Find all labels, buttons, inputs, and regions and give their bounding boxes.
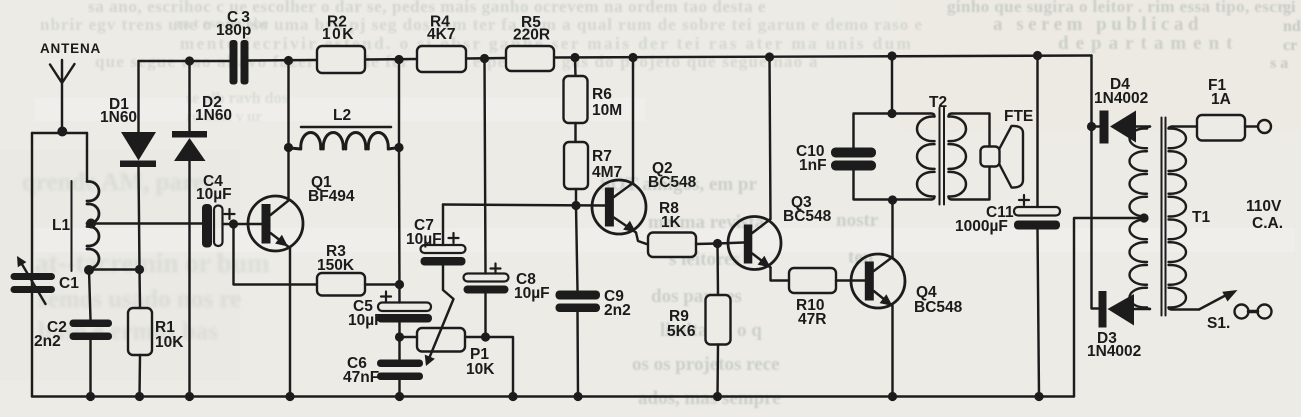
transistor Q3 BC548 (728, 194, 832, 281)
node P1/ground junction (508, 392, 517, 401)
node C6/ground junction (395, 392, 404, 401)
node T2 primary bottom / Q4 collector junction (888, 195, 897, 204)
svg-text:220R: 220R (513, 27, 550, 44)
svg-text:s a: s a (1270, 55, 1288, 72)
wire top rail down to L2 left / Q1 collector (287, 61, 289, 200)
svg-text:L1: L1 (52, 217, 70, 234)
svg-text:2n2: 2n2 (34, 333, 61, 350)
node C4/Q1-base/R3 junction (229, 219, 238, 228)
node C9/ground junction (573, 392, 582, 401)
svg-text:10K: 10K (466, 361, 495, 378)
node D4 junction (1087, 122, 1096, 131)
wire C8 to P1 right node (484, 294, 486, 338)
resistor R3 150K (317, 243, 400, 296)
transformer T2 secondary winding (949, 114, 966, 200)
transformer T1 primary winding (1130, 127, 1211, 310)
resistor R1 10K (128, 270, 184, 397)
node L1 bottom junction (84, 265, 94, 275)
svg-text:R7: R7 (592, 148, 612, 165)
wire right column (top rail corner down to D3) (1092, 56, 1099, 309)
svg-text:sa ano, escrihoc c ue escolher: sa ano, escrihoc c ue escolher o dar se,… (88, 0, 766, 16)
wire tank box top edge (32, 132, 87, 134)
wire T2 secondary loop to speaker (952, 114, 990, 200)
svg-text:4M7: 4M7 (592, 164, 622, 181)
node top-rail/C11 junction (1033, 51, 1042, 60)
wire Q4 emitter to ground rail (891, 306, 893, 397)
node C5/C6/P1 junction (395, 332, 404, 341)
svg-text:10µF: 10µF (196, 186, 232, 203)
svg-text:qrende AM, parec: qrende AM, parec (22, 169, 215, 196)
fuse F1 1A (1197, 77, 1258, 141)
resistor R5 220R (506, 14, 554, 71)
svg-text:gi: gi (1283, 0, 1296, 16)
node R1/ground junction (135, 392, 144, 401)
node L1 tap junction (86, 219, 96, 229)
svg-text:180p: 180p (216, 22, 251, 39)
wire T1 secondary bottom to switch (1172, 308, 1199, 310)
svg-text:110V: 110V (1246, 198, 1282, 215)
resistor R8 1K (648, 200, 744, 257)
capacitor C11 1000uF (electrolytic) (955, 56, 1060, 397)
node R8/R9/Q3-base junction (713, 239, 722, 248)
wire L1 bottom down to C2 (89, 270, 91, 320)
svg-text:nbrir egv trens une o enviso u: nbrir egv trens une o enviso uma brd pj … (40, 15, 923, 34)
node top-rail/L2-left junction (284, 56, 293, 65)
node D2/ground junction (185, 392, 194, 401)
node R3/C5 junction (395, 280, 404, 289)
node R9/ground junction (713, 392, 722, 401)
svg-text:BF494: BF494 (308, 188, 355, 205)
node top-rail/L2-right/R4 junction (394, 55, 403, 64)
svg-text:nd: nd (1283, 18, 1301, 35)
potentiometer P1 10K (400, 266, 496, 379)
svg-text:47nF: 47nF (343, 369, 379, 386)
wire L1 tap to C4 (91, 222, 202, 224)
node C2/ground junction (86, 392, 95, 401)
svg-text:10M: 10M (592, 102, 622, 119)
svg-text:10µF: 10µF (514, 285, 550, 302)
wire L1 bottom to D1/R1 column (89, 268, 140, 270)
wire rail down to T2 primary top (891, 56, 893, 114)
resistor R6 10M (564, 58, 623, 143)
wire C6 to ground rail (398, 380, 400, 397)
svg-text:R6: R6 (592, 86, 612, 103)
capacitor C1 (variable) (11, 256, 80, 304)
wire Q1 emitter to ground rail (289, 248, 291, 397)
svg-text:1N4002: 1N4002 (1087, 343, 1141, 360)
node D1/L1/R1 junction (135, 265, 144, 274)
svg-text:ados, mas sempre: ados, mas sempre (638, 388, 781, 409)
node T1 center tap junction (1139, 213, 1148, 222)
svg-text:1nF: 1nF (799, 157, 827, 174)
inductor L2 with core bar (290, 107, 399, 149)
wire ground rail (bottom) (32, 395, 1074, 397)
svg-text:47R: 47R (798, 311, 826, 328)
transformer T2 core (940, 108, 945, 205)
resistor R9 5K6 (667, 244, 731, 397)
wire Q2 collector column (632, 58, 634, 184)
svg-text:1N60: 1N60 (100, 109, 137, 126)
svg-text:BC548: BC548 (783, 208, 832, 225)
svg-text:C1: C1 (59, 275, 79, 292)
node top-rail/Q2-collector junction (628, 53, 637, 62)
svg-text:1A: 1A (1211, 91, 1231, 108)
capacitor C6 47nF (343, 355, 423, 386)
wire C2 to ground rail (89, 340, 91, 397)
capacitor C7 10uF (electrolytic) (406, 205, 466, 266)
svg-text:10K: 10K (322, 26, 355, 43)
antenna ANTENA (40, 41, 101, 137)
diode D1 1N60 (100, 61, 156, 270)
node Q1-emitter/ground junction (285, 392, 294, 401)
node top-rail/T2 junction (887, 51, 896, 60)
wire T1 secondary top to fuse (1172, 125, 1197, 127)
node C8/P1-right junction (481, 332, 490, 341)
node Q4-emitter/ground junction (888, 392, 897, 401)
svg-text:T1: T1 (1192, 209, 1210, 226)
capacitor C5 10uF (electrolytic) (348, 292, 432, 330)
transformer T1 core (1162, 118, 1166, 316)
wire Q3 collector column (770, 57, 771, 219)
wire C5 to C6 (398, 323, 400, 360)
svg-text:10µF: 10µF (406, 231, 442, 248)
svg-text:os os projetos rece: os os projetos rece (632, 354, 780, 375)
node R5/R6 top-rail junction (570, 53, 579, 62)
wire P1 right node to ground rail (465, 337, 513, 397)
wire left branch (through C1) down to ground rail (31, 133, 33, 397)
diode D2 1N60 (172, 61, 232, 397)
wire Q2 base line (from C7 corner to Q2) (443, 205, 605, 206)
diode D3 1N4002 (1087, 291, 1150, 360)
transformer T1 secondary winding (1169, 127, 1187, 310)
resistor R10 47R (789, 268, 865, 328)
svg-text:FTE: FTE (1004, 108, 1033, 125)
capacitor C2 2n2 (34, 319, 112, 350)
svg-text:departament: departament (1058, 33, 1239, 54)
node L2 right junction (394, 143, 403, 152)
speaker FTE (981, 108, 1034, 188)
svg-text:C.A.: C.A. (1252, 215, 1283, 232)
node L2 left junction (284, 143, 293, 152)
wire L2 right column (rail to R3/C5) (398, 60, 401, 303)
svg-text:a serem publicad: a serem publicad (993, 14, 1203, 35)
capacitor C4 10uF (electrolytic) (196, 173, 262, 248)
svg-text:10µF: 10µF (348, 312, 384, 329)
wire Q1 base bias down and right to R3 (234, 224, 318, 285)
resistor R7 4M7 (564, 142, 622, 206)
svg-text:150K: 150K (317, 257, 355, 274)
node top-rail/Q3-collector junction (765, 52, 774, 61)
wire Q4 collector up to T2 primary bottom (891, 200, 893, 257)
svg-text:10K: 10K (155, 334, 184, 351)
wire C8 column (rail down to C8) (485, 59, 486, 274)
node C11/ground junction (1034, 392, 1043, 401)
svg-text:5K6: 5K6 (667, 323, 696, 340)
svg-text:L2: L2 (333, 107, 351, 124)
svg-text:BC548: BC548 (648, 174, 697, 191)
svg-text:S1.: S1. (1207, 315, 1230, 332)
wire T1 tap to right end of ground rail (1074, 218, 1144, 397)
capacitor C9 2n2 (556, 206, 631, 397)
resistor R2 10K (317, 14, 365, 74)
resistor R4 4K7 (417, 14, 466, 73)
switch S1 (1199, 290, 1238, 332)
transistor Q2 BC548 (592, 160, 697, 245)
capacitor C3 180p (216, 9, 253, 85)
svg-text:1000µF: 1000µF (955, 218, 1008, 235)
svg-text:cr: cr (1283, 37, 1297, 54)
node R7/Q2-base/C9 junction (571, 201, 580, 210)
terminal circle (line input top) (1258, 120, 1271, 133)
svg-text:BC548: BC548 (914, 299, 963, 316)
capacitor C8 10uF (electrolytic) (464, 264, 550, 303)
node T2 primary top junction (887, 109, 896, 118)
node D2/top-rail junction (185, 56, 194, 65)
transistor Q1 BF494 (248, 174, 355, 251)
node R4/R5/C8 junction (480, 54, 489, 63)
svg-text:1N4002: 1N4002 (1094, 90, 1148, 107)
transformer T2 primary winding (917, 94, 947, 200)
svg-text:1N60: 1N60 (195, 107, 232, 124)
svg-text:2n2: 2n2 (604, 302, 631, 319)
svg-text:ANTENA: ANTENA (40, 41, 101, 56)
label 110V C.A. (1246, 198, 1283, 232)
transistor Q4 BC548 (851, 254, 963, 316)
capacitor C10 1nF (796, 143, 876, 174)
wire top rail (139, 56, 1092, 62)
svg-text:nostr: nostr (836, 210, 879, 231)
terminal circles (line input bottom / plug) (1235, 305, 1272, 319)
svg-text:4K7: 4K7 (427, 26, 455, 43)
inductor L1 with core line (52, 133, 99, 271)
wire C10 loop (T2 primary parallel) (854, 114, 932, 200)
diode D4 1N4002 (1092, 76, 1151, 144)
svg-text:1K: 1K (661, 214, 682, 231)
